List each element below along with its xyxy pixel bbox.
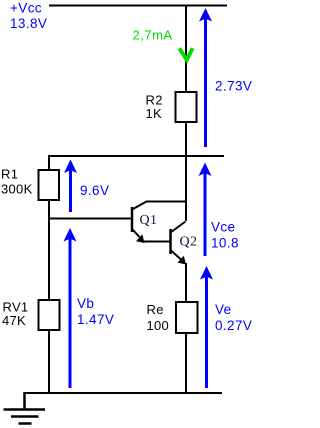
arrow Vce — [199, 163, 212, 257]
arrow Vb — [64, 228, 77, 388]
wire R2 bottom — [185, 122, 187, 157]
svg-text:300K: 300K — [1, 182, 33, 197]
wire R2 top branch — [185, 5, 187, 93]
svg-text:2.73V: 2.73V — [215, 79, 252, 94]
ground — [4, 392, 46, 424]
wire middle rail — [49, 155, 224, 157]
current arrow green — [179, 48, 192, 60]
svg-text:R1: R1 — [1, 167, 18, 182]
svg-text:9.6V: 9.6V — [80, 183, 109, 198]
transistor Q2 — [171, 222, 187, 265]
svg-text:10.8: 10.8 — [211, 236, 239, 251]
svg-text:Ve: Ve — [215, 302, 232, 317]
wire RV1 top — [48, 218, 50, 300]
wire ground rail — [24, 392, 223, 394]
arrow Ve — [200, 266, 213, 388]
arrow 2.73V — [199, 8, 212, 147]
resistor RV1 — [39, 300, 60, 330]
svg-text:2,7mA: 2,7mA — [133, 28, 173, 43]
svg-text:Q1: Q1 — [140, 213, 158, 228]
resistor Re — [176, 302, 198, 333]
resistor R2 — [176, 92, 197, 122]
svg-text:0.27V: 0.27V — [215, 318, 252, 333]
svg-text:Vb: Vb — [77, 296, 94, 311]
svg-text:+Vcc: +Vcc — [10, 1, 42, 16]
svg-text:47K: 47K — [2, 313, 26, 328]
arrow 9.6V — [64, 160, 77, 213]
wire Re bottom — [185, 333, 187, 394]
svg-text:100: 100 — [147, 318, 170, 333]
wire base line — [48, 218, 132, 220]
transistor Q1 — [132, 202, 186, 244]
wire collector branch — [185, 156, 187, 221]
wire R1 top stub — [48, 155, 50, 170]
wire Q2 emitter down — [185, 263, 187, 303]
svg-text:Vce: Vce — [211, 220, 235, 235]
svg-text:1K: 1K — [146, 106, 163, 121]
svg-text:1.47V: 1.47V — [77, 312, 114, 327]
wire RV1 bottom — [48, 330, 50, 394]
resistor R1 — [39, 170, 60, 200]
wire Vcc rail — [49, 5, 227, 7]
svg-text:Re: Re — [147, 302, 164, 317]
svg-text:13.8V: 13.8V — [10, 16, 47, 31]
svg-text:Q2: Q2 — [180, 235, 198, 250]
wire R1 bottom stub — [48, 200, 50, 219]
